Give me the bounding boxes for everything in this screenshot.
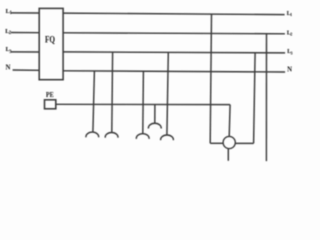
wire L1 bus bbox=[63, 13, 285, 15]
lamp holder E1 bbox=[86, 132, 99, 137]
wire stub below lamp M1 bbox=[227, 149, 229, 161]
svg-text:FQ: FQ bbox=[45, 35, 55, 45]
lamp M1 circle bbox=[223, 136, 235, 148]
protective earth PE box bbox=[45, 100, 56, 109]
wire L2 bus bbox=[63, 33, 285, 34]
wire lamp M1 right elbow bbox=[235, 142, 253, 144]
lamp holder E4 bbox=[148, 123, 161, 128]
wire L3 drop bbox=[254, 53, 256, 144]
wire PE bus bbox=[56, 103, 230, 105]
wire lamp2 drop from L3 bbox=[111, 53, 114, 133]
svg-text:2: 2 bbox=[290, 31, 292, 36]
wire L2 left stub bbox=[11, 32, 39, 34]
wire lamp3 drop from N bbox=[142, 71, 145, 134]
circuit breaker FQ box bbox=[39, 8, 63, 79]
lamp holder E3 bbox=[136, 134, 149, 139]
wire L1 drop bbox=[210, 14, 211, 143]
wire L3 bus bbox=[63, 52, 285, 53]
wire N bus bbox=[63, 71, 285, 72]
wire N left stub bbox=[13, 69, 40, 71]
wire lamp4 drop from PE bbox=[154, 105, 156, 124]
svg-text:N: N bbox=[287, 66, 292, 73]
svg-text:1: 1 bbox=[290, 12, 292, 17]
svg-text:PE: PE bbox=[46, 91, 54, 99]
wire lamp5 drop from L3 bbox=[167, 52, 168, 135]
wire L1 left stub bbox=[11, 12, 39, 14]
wire lamp1 drop from N bbox=[93, 71, 95, 132]
wire L2 drop bbox=[265, 33, 267, 161]
wire elbow to lamp M1 left bbox=[210, 142, 223, 144]
lamp holder E2 bbox=[105, 132, 118, 137]
svg-text:N: N bbox=[6, 64, 11, 71]
lamp holder E5 bbox=[161, 135, 174, 140]
wire PE drop to lamp M1 bbox=[228, 105, 231, 137]
wire L3 left stub bbox=[11, 51, 39, 53]
